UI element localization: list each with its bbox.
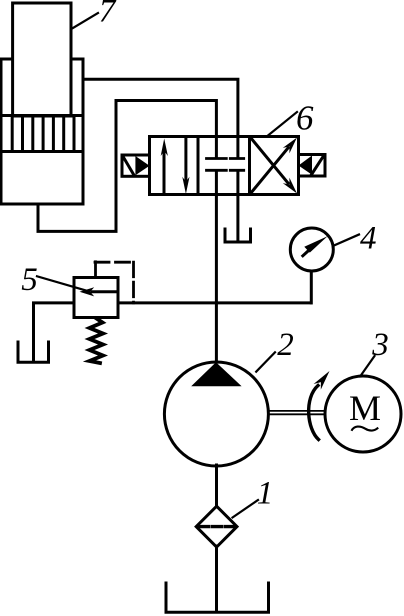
motor M3 AC tilde bbox=[352, 427, 379, 431]
cylinder C7 piston band bottom line bbox=[1, 150, 83, 153]
motor M3 circle bbox=[325, 376, 401, 452]
pressure gauge G4 needle bbox=[303, 236, 328, 256]
cylinder C7 piston hatch lines bbox=[12, 116, 74, 152]
filter F1 diamond bbox=[196, 506, 237, 547]
svg-text:3: 3 bbox=[371, 327, 389, 363]
leader line label 7 bbox=[73, 13, 98, 28]
valve U6 left position down arrow bbox=[182, 140, 189, 195]
relief valve V5 box bbox=[74, 278, 118, 318]
shaft double line pump to motor bbox=[268, 411, 326, 414]
leader line label 2 bbox=[256, 352, 275, 371]
relief valve V5 internal arrow bbox=[80, 287, 119, 296]
wire cylinder cap-side port to valve A port bbox=[38, 101, 216, 232]
leader line label 6 bbox=[268, 112, 297, 136]
leader line label 5 bbox=[37, 276, 86, 290]
leader line label 3 bbox=[362, 356, 375, 375]
wire filter down into main tank bbox=[215, 546, 218, 612]
wire gauge branch horizontal bbox=[118, 301, 311, 304]
motor M3 rotation arrowhead bbox=[314, 371, 330, 390]
main tank bbox=[166, 583, 269, 612]
wire gauge riser bbox=[310, 270, 313, 303]
cylinder C7 barrel bbox=[1, 59, 83, 204]
filter F1 dashed element line bbox=[199, 525, 236, 528]
wire valve T port to drain tank bbox=[236, 195, 239, 242]
svg-text:1: 1 bbox=[257, 476, 274, 512]
solenoid right of valve U6 bbox=[299, 155, 326, 177]
valve U6 square divider right bbox=[248, 137, 251, 195]
svg-text:M: M bbox=[349, 388, 381, 428]
valve U6 left position up arrow bbox=[161, 139, 168, 192]
solenoid left of valve U6 bbox=[122, 155, 150, 176]
leader line label 1 bbox=[233, 500, 259, 518]
motor M3 rotation arrow arc bbox=[309, 386, 319, 440]
relief valve V5 spring bbox=[90, 319, 104, 364]
valve U6 center position blocked port stubs bbox=[216, 137, 238, 195]
valve U6 right position crossed arrow up-right bbox=[251, 138, 298, 194]
wire valve P port down to pump bbox=[215, 195, 218, 363]
svg-text:5: 5 bbox=[21, 262, 38, 298]
drain tank under valve bbox=[225, 229, 251, 242]
valve U6 body bbox=[150, 137, 299, 195]
pressure gauge G4 circle bbox=[290, 228, 333, 271]
wire relief valve drain to tank bbox=[34, 303, 75, 361]
pump P2 flow triangle bbox=[191, 362, 241, 386]
valve U6 right position crossed arrow down-right bbox=[251, 138, 298, 194]
svg-text:6: 6 bbox=[296, 98, 314, 137]
wire pump inlet down to filter bbox=[215, 465, 218, 507]
cylinder C7 piston band top line bbox=[1, 114, 83, 117]
valve U6 square divider left bbox=[197, 137, 200, 195]
relief valve V5 pilot dashed line bbox=[95, 262, 134, 303]
leader line label 4 bbox=[333, 235, 359, 246]
valve U6 center position blocked port crossbars bbox=[207, 159, 244, 171]
drain tank left of relief valve bbox=[18, 342, 49, 362]
svg-text:4: 4 bbox=[360, 220, 377, 256]
wire cylinder rod-side port to valve B port bbox=[83, 79, 238, 138]
pump P2 circle bbox=[164, 362, 268, 466]
cylinder C7 piston rod bbox=[13, 3, 71, 116]
svg-text:2: 2 bbox=[277, 327, 294, 363]
svg-text:7: 7 bbox=[99, 0, 117, 30]
